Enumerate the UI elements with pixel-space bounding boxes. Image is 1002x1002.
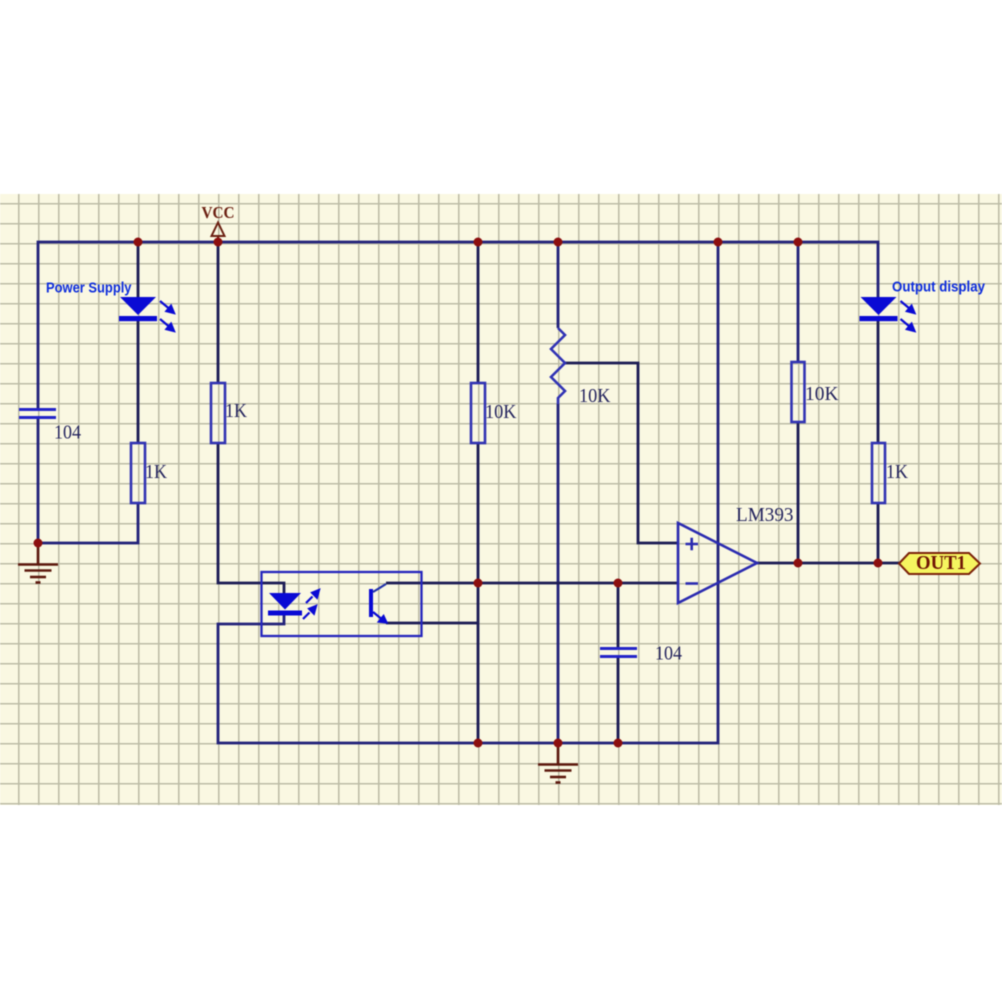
op-amp U1 minus input marker [686, 582, 699, 585]
wire: R1 bottom down to optocoupler anode pin [218, 443, 284, 593]
wire: phototransistor collector net to op-amp inverting input [386, 582, 678, 585]
resistor R4 10K [792, 362, 805, 422]
wire: VCC node down to R1 top [217, 242, 220, 383]
wire: LED D2 cathode to R5 top [877, 321, 880, 443]
junction dot top rail at riser [714, 238, 723, 247]
capacitor C1 104 plates [19, 410, 56, 418]
resistor R2 1K (under D1) [131, 443, 145, 503]
svg-text:LM393: LM393 [736, 504, 794, 526]
LED D1 (Power Supply indicator) [119, 297, 157, 321]
resistor R3 10K [471, 383, 485, 443]
optocoupler U2 internal LED [268, 593, 302, 616]
optocoupler U2 phototransistor base bar [369, 589, 373, 617]
svg-text:Power Supply: Power Supply [46, 281, 132, 297]
svg-text:104: 104 [54, 422, 81, 444]
ground symbol (center, bottom rail) [538, 743, 578, 783]
junction dot top rail at R4 branch [794, 238, 803, 247]
svg-text:OUT1: OUT1 [916, 553, 966, 574]
potentiometer RP 10K zigzag [551, 328, 565, 404]
svg-text:104: 104 [655, 643, 682, 665]
port OUT1 [899, 553, 980, 574]
resistor R5 1K [872, 443, 885, 503]
LED D2 (Output display indicator) [860, 297, 898, 321]
op-amp U1 plus input marker [686, 538, 699, 551]
wire: C2 top lead [617, 583, 620, 649]
wire: LED D1 top lead [137, 242, 140, 297]
junction dot output net at R5 [874, 559, 883, 568]
junction dot inverting net at C2 [614, 579, 623, 588]
optocoupler U2 body [262, 572, 422, 636]
optocoupler U2 phototransistor collector stroke [373, 584, 386, 592]
wire: optocoupler cathode loop, bottom ground rail, right riser to VCC rail [218, 242, 718, 743]
junction dot bottom rail at C2 [614, 739, 623, 748]
svg-text:10K: 10K [485, 401, 517, 423]
junction dot top rail at R3 branch [474, 238, 483, 247]
wire: LED D1 cathode to R2 top [137, 321, 140, 443]
resistor R1 1K [211, 383, 225, 443]
ground symbol (left, power input) [18, 543, 58, 583]
wire: C2 bottom lead [617, 657, 620, 743]
wire: top rail to R4 top [797, 242, 800, 362]
junction dot top rail at VCC [214, 238, 223, 247]
optocoupler U2 emission arrows [303, 590, 319, 619]
svg-text:1K: 1K [145, 461, 167, 483]
svg-text:10K: 10K [805, 383, 839, 405]
junction dot bottom rail at R3 net [474, 739, 483, 748]
svg-text:10K: 10K [579, 385, 611, 407]
wire: top VCC rail with left drop to C1 and right drop to LED D2 [38, 242, 878, 409]
junction dot bottom rail at ground [554, 739, 563, 748]
wire: C1 bottom to ground node, across to R2 bottom [38, 418, 138, 543]
schematic sheet background [0, 194, 1002, 805]
wire: op-amp output to OUT1 port [757, 562, 899, 565]
junction dot output net at R4 [794, 559, 803, 568]
wire: R4 bottom to output net [797, 422, 800, 563]
power port VCC [212, 223, 225, 243]
optocoupler U2 phototransistor emitter stroke with arrowhead [373, 612, 387, 623]
junction dot inverting net at R3 [474, 579, 483, 588]
wire: R5 bottom to output net [877, 503, 880, 563]
junction dot top rail at D1 branch [134, 238, 143, 247]
wire: top rail to R3 top [477, 242, 480, 383]
svg-text:Output display: Output display [892, 280, 985, 296]
op-amp U1 LM393 triangle [678, 523, 757, 603]
LED D2 light arrows [901, 301, 915, 331]
wire: R3 bottom through inverting net down to bottom rail [477, 443, 480, 743]
svg-text:VCC: VCC [202, 203, 235, 222]
LED D1 light arrows [160, 301, 174, 331]
junction dot left ground node [34, 539, 43, 548]
capacitor C2 104 plates [600, 649, 637, 657]
svg-text:1K: 1K [225, 400, 247, 422]
wire: top rail to potentiometer RP top [557, 242, 560, 328]
wire: potentiometer RP bottom down to bottom rail [557, 404, 560, 743]
svg-text:1K: 1K [886, 461, 908, 483]
wire: RP wiper to op-amp non-inverting input [565, 363, 678, 543]
junction dot top rail at RP branch [554, 238, 563, 247]
wire: phototransistor emitter to R3 net [386, 622, 478, 625]
